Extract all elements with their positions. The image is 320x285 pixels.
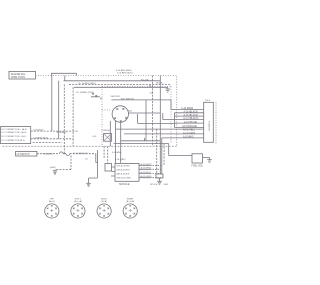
svg-text:A-1 2 (BLACK): A-1 2 (BLACK) bbox=[183, 117, 198, 120]
svg-text:705-4 AC →: 705-4 AC → bbox=[141, 79, 152, 82]
svg-text:4-16 (RED): 4-16 (RED) bbox=[33, 130, 44, 132]
svg-text:A4 (ORANGE): A4 (ORANGE) bbox=[182, 125, 197, 128]
svg-text:4-16 AWG: 4-16 AWG bbox=[112, 151, 122, 154]
svg-text:4-14 AWG (RED): 4-14 AWG (RED) bbox=[116, 69, 132, 72]
svg-text:A-16 (BLUE): A-16 (BLUE) bbox=[184, 121, 197, 124]
svg-text:A-14 (GRN): A-14 (GRN) bbox=[183, 132, 195, 135]
svg-text:BAT A-16 BLK: BAT A-16 BLK bbox=[117, 172, 130, 175]
svg-text:A-16 (BLACK): A-16 (BLACK) bbox=[184, 114, 199, 117]
svg-text:CHASSIS: CHASSIS bbox=[207, 121, 210, 131]
svg-text:10A: 10A bbox=[150, 92, 154, 95]
svg-text:A-16 (WHT): A-16 (WHT) bbox=[141, 163, 152, 166]
svg-text:IGN A-16 WHT: IGN A-16 WHT bbox=[117, 168, 131, 171]
svg-text:DC CONNECTOR + (A-5): DC CONNECTOR + (A-5) bbox=[2, 128, 27, 131]
svg-text:A-16 (RED): A-16 (RED) bbox=[141, 167, 152, 170]
svg-text:CONN A: CONN A bbox=[102, 129, 111, 132]
svg-text:SPLICE: SPLICE bbox=[150, 184, 158, 186]
svg-text:KEY SWITCH: KEY SWITCH bbox=[121, 98, 134, 100]
svg-text:170-4: 170-4 bbox=[205, 100, 211, 102]
svg-text:4-16: 4-16 bbox=[92, 136, 97, 138]
svg-text:GND: GND bbox=[164, 184, 169, 186]
svg-text:START: START bbox=[127, 197, 134, 200]
svg-text:4-16 AWG (BLK): 4-16 AWG (BLK) bbox=[33, 136, 49, 139]
svg-text:(M+G): (M+G) bbox=[49, 201, 55, 203]
svg-text:B+ 16 AWG (ORG): B+ 16 AWG (ORG) bbox=[76, 91, 94, 94]
svg-text:LP SWITCH: LP SWITCH bbox=[17, 153, 30, 156]
svg-text:SOL A-16 RED: SOL A-16 RED bbox=[117, 165, 131, 168]
svg-text:B+ 16 AWG (RED): B+ 16 AWG (RED) bbox=[79, 82, 96, 85]
svg-text:FUEL SOL: FUEL SOL bbox=[192, 165, 204, 168]
svg-text:4A: 4A bbox=[149, 84, 152, 87]
svg-text:DC CONNECTOR - (A-4): DC CONNECTOR - (A-4) bbox=[2, 131, 27, 134]
svg-text:A-14 (RED): A-14 (RED) bbox=[181, 107, 193, 110]
svg-text:6-16 AWG (BLK): 6-16 AWG (BLK) bbox=[117, 72, 133, 75]
svg-text:DC CONNECTOR - (B-1): DC CONNECTOR - (B-1) bbox=[2, 136, 27, 138]
svg-text:A-16 (GRN): A-16 (GRN) bbox=[141, 175, 152, 178]
svg-text:(B+A): (B+A) bbox=[101, 200, 107, 203]
svg-text:20A: 20A bbox=[128, 110, 132, 113]
svg-text:A-16 (BLK): A-16 (BLK) bbox=[141, 171, 152, 174]
svg-text:IGNITION: IGNITION bbox=[110, 96, 120, 98]
svg-text:(7): (7) bbox=[85, 159, 88, 161]
svg-text:(GND): (GND) bbox=[50, 167, 56, 169]
svg-text:MODULE: MODULE bbox=[119, 183, 130, 186]
svg-text:DC CONNECTOR (B-2): DC CONNECTOR (B-2) bbox=[2, 140, 26, 142]
svg-text:(B+S+A): (B+S+A) bbox=[126, 200, 134, 203]
svg-text:4-16 AWG: 4-16 AWG bbox=[43, 153, 53, 156]
svg-text:A-16 (YEL): A-16 (YEL) bbox=[183, 129, 195, 132]
svg-text:1A 4 B+: 1A 4 B+ bbox=[156, 82, 164, 85]
svg-text:B+ 16 AWG (R): B+ 16 AWG (R) bbox=[73, 152, 88, 155]
svg-text:A 16 AWG: A 16 AWG bbox=[183, 136, 194, 139]
svg-text:(B+L+A): (B+L+A) bbox=[74, 200, 82, 203]
svg-text:WIRE CONN: WIRE CONN bbox=[11, 76, 25, 79]
svg-text:A1: A1 bbox=[100, 97, 103, 100]
svg-text:GND A-16 GRN: GND A-16 GRN bbox=[117, 176, 132, 179]
svg-text:B 16 (RED): B 16 (RED) bbox=[115, 159, 126, 161]
svg-text:B-16 AWG: B-16 AWG bbox=[57, 131, 67, 134]
svg-text:A-16 (BLACK): A-16 (BLACK) bbox=[184, 111, 199, 114]
